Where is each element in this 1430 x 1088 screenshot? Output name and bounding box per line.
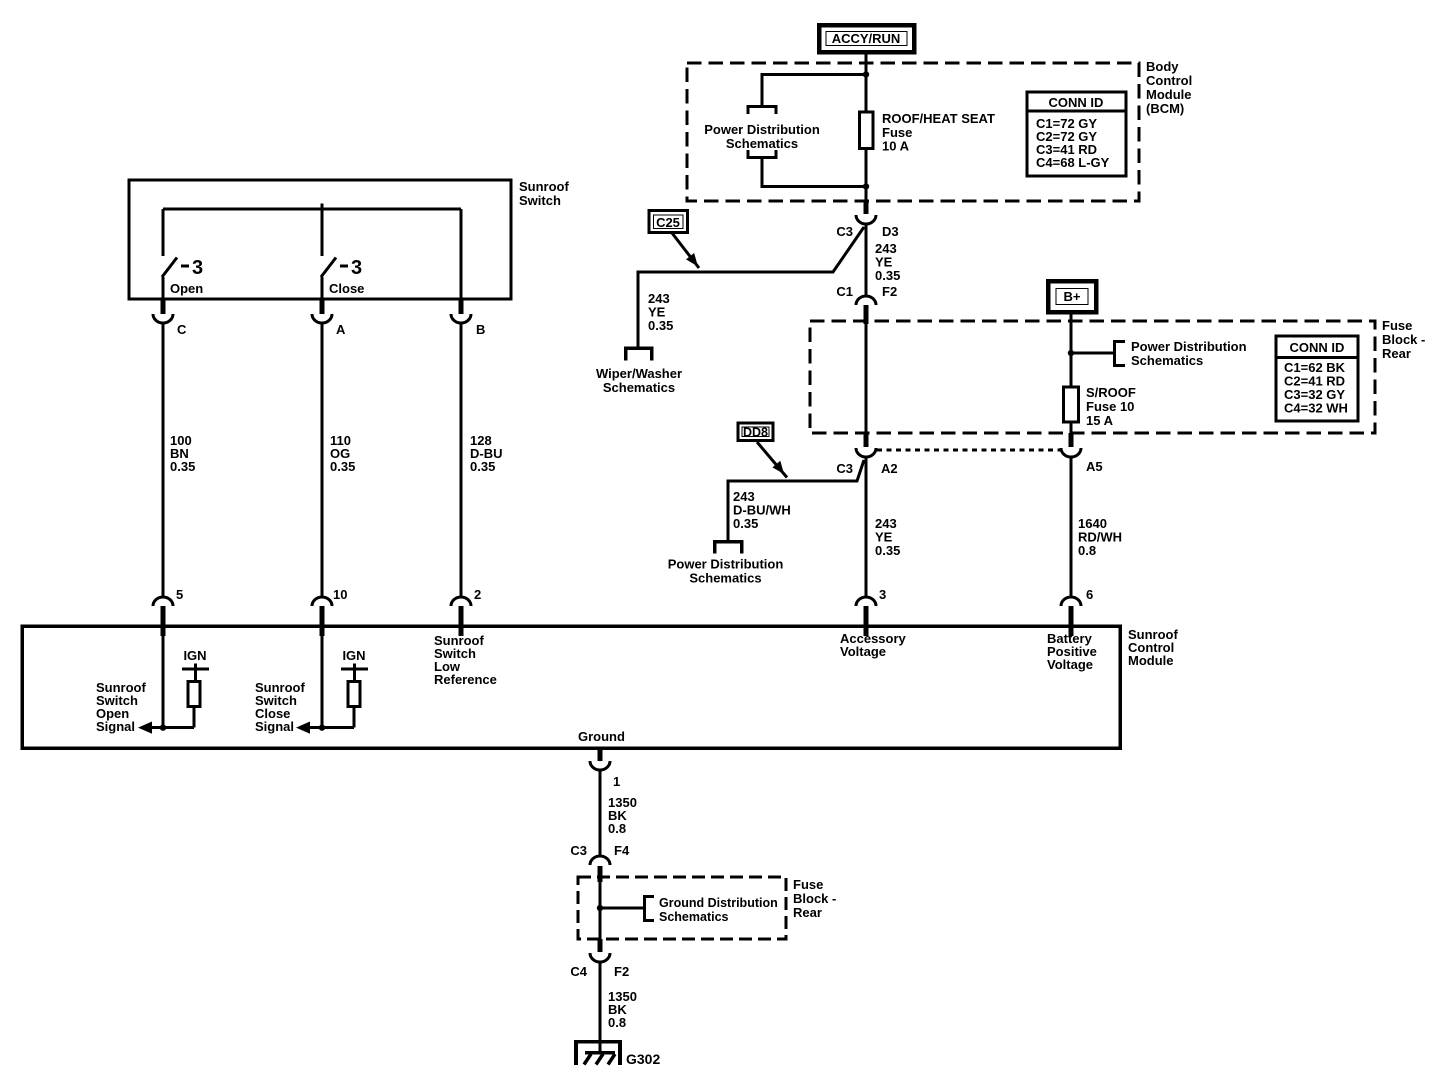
wire through ground dist box — [599, 882, 602, 939]
wire branch to power distribution schematics (DD8) — [728, 460, 864, 541]
fuse S/ROOF 15A — [1064, 385, 1136, 428]
svg-text:Fuse 10: Fuse 10 — [1086, 399, 1134, 414]
pin 5 interior wire — [162, 636, 165, 728]
wire resistor to signal line — [193, 707, 196, 728]
connector C1 F2 — [836, 284, 897, 305]
connector C4 F2 — [570, 953, 629, 979]
svg-text:Control: Control — [1146, 73, 1192, 88]
connector pin 1 — [590, 761, 620, 789]
svg-text:C25: C25 — [656, 215, 680, 230]
CONN ID table (fuse block rear) — [1276, 336, 1358, 421]
svg-text:15 A: 15 A — [1086, 413, 1114, 428]
svg-text:Rear: Rear — [793, 905, 822, 920]
svg-text:C4=32 WH: C4=32 WH — [1284, 401, 1348, 416]
connector stub below fuse block (left) — [864, 433, 869, 447]
svg-text:0.35: 0.35 — [170, 459, 195, 474]
resistor (close signal pull-up) — [348, 682, 360, 707]
connector stub into ground dist fuse block — [598, 866, 603, 882]
reference flag C25 — [649, 211, 688, 233]
reference text Power Distribution Schematics (BCM) — [704, 122, 820, 151]
ground symbol G302 — [574, 1040, 660, 1067]
label Sunroof Switch Open Signal — [96, 680, 146, 734]
connector A5 — [1061, 448, 1103, 474]
Sunroof Switch box — [129, 180, 511, 299]
svg-text:Voltage: Voltage — [1047, 657, 1093, 672]
svg-text:Fuse: Fuse — [1382, 318, 1412, 333]
wire A to pin 10 — [321, 323, 324, 597]
svg-text:C4: C4 — [570, 964, 587, 979]
label Accessory Voltage — [840, 631, 907, 659]
svg-text:2: 2 — [474, 587, 481, 602]
connector stub below ground dist box — [598, 939, 603, 952]
ground wire to C3/F4 — [599, 770, 602, 856]
switch Close — [321, 209, 364, 299]
connector stub A — [320, 299, 325, 314]
svg-text:6: 6 — [1086, 587, 1093, 602]
wire label 110 OG 0.35 — [330, 433, 355, 474]
wire resistor to signal line — [353, 707, 356, 728]
svg-text:C3: C3 — [570, 843, 587, 858]
svg-text:Block -: Block - — [1382, 332, 1425, 347]
wire B+ to fuse — [1070, 312, 1073, 433]
wire label 243 YE 0.35 (lower) — [875, 516, 900, 558]
label Fuse Block Rear — [1382, 318, 1425, 361]
Fuse Block Rear (ground) dashed box — [578, 877, 786, 939]
switch Open — [162, 209, 203, 299]
connector stub B — [459, 299, 464, 314]
BCM dashed box — [687, 63, 1139, 201]
connector pin 3 — [856, 587, 886, 606]
connector pin 6 — [1061, 587, 1093, 606]
pin 10 interior wire — [321, 636, 324, 728]
svg-text:A5: A5 — [1086, 459, 1103, 474]
fuse ROOF/HEAT SEAT 10A — [860, 111, 995, 154]
wire ACCY/RUN to BCM fuse — [865, 52, 868, 201]
Fuse Block Rear dashed box — [810, 321, 1375, 433]
svg-text:B+: B+ — [1064, 289, 1081, 304]
node junction ground dist — [597, 905, 603, 911]
svg-text:IGN: IGN — [183, 648, 206, 663]
svg-text:Power Distribution: Power Distribution — [704, 122, 820, 137]
svg-text:Rear: Rear — [1382, 346, 1411, 361]
off-page bracket (Power Distribution, fuse block) — [1115, 342, 1126, 366]
svg-text:Power Distribution: Power Distribution — [1131, 339, 1247, 354]
off-page bracket top (Power Distribution, BCM) — [748, 107, 776, 115]
label Fuse Block Rear (ground) — [793, 877, 836, 920]
junction tick middle branch — [321, 204, 324, 216]
svg-text:Reference: Reference — [434, 672, 497, 687]
reference text Power Distribution Schematics (fuse block) — [1131, 339, 1247, 368]
wire A5 to pin 6 — [1070, 457, 1073, 597]
wire C3/A2 to pin 3 — [865, 457, 868, 597]
connector pin 5 — [153, 587, 183, 606]
node junction above fuse — [863, 71, 869, 77]
reference text Wiper/Washer Schematics — [596, 366, 682, 395]
label Battery Positive Voltage — [1047, 631, 1097, 672]
svg-text:10 A: 10 A — [882, 139, 910, 154]
svg-text:Body: Body — [1146, 59, 1179, 74]
svg-text:Schematics: Schematics — [603, 380, 675, 395]
svg-text:Module: Module — [1146, 87, 1192, 102]
resistor (open signal pull-up) — [188, 682, 200, 707]
close signal line with arrow — [296, 722, 354, 734]
svg-text:C: C — [177, 322, 187, 337]
svg-text:A2: A2 — [881, 461, 898, 476]
connector B — [451, 314, 485, 337]
off-page bracket (Ground Distribution) — [645, 897, 655, 921]
svg-text:ROOF/HEAT SEAT: ROOF/HEAT SEAT — [882, 111, 995, 126]
svg-text:C3: C3 — [836, 224, 853, 239]
node junction on B+ wire — [1068, 350, 1074, 356]
svg-text:10: 10 — [333, 587, 347, 602]
svg-text:DD8: DD8 — [743, 426, 768, 440]
svg-text:CONN ID: CONN ID — [1290, 340, 1345, 355]
reference text Power Distribution Schematics (DD8 branch) — [668, 557, 784, 586]
wire label 243 YE 0.35 (branch) — [648, 291, 673, 333]
svg-text:0.8: 0.8 — [608, 1015, 626, 1030]
svg-text:Schematics: Schematics — [689, 571, 761, 586]
connector A — [312, 314, 346, 337]
open signal line with arrow — [138, 722, 194, 734]
svg-text:Sunroof: Sunroof — [519, 179, 569, 194]
svg-text:Signal: Signal — [255, 719, 294, 734]
svg-text:F2: F2 — [882, 284, 897, 299]
IGN supply 1 — [182, 648, 209, 682]
svg-text:C4=68 L-GY: C4=68 L-GY — [1036, 155, 1110, 170]
svg-text:3: 3 — [351, 257, 362, 279]
svg-text:Module: Module — [1128, 653, 1174, 668]
svg-text:1: 1 — [613, 774, 620, 789]
svg-text:Schematics: Schematics — [1131, 353, 1203, 368]
svg-text:(BCM): (BCM) — [1146, 101, 1184, 116]
power symbol ACCY/RUN — [819, 25, 914, 52]
svg-text:Block -: Block - — [793, 891, 836, 906]
label Sunroof Switch Close Signal — [255, 680, 305, 734]
wire low reference inside switch — [460, 209, 463, 299]
svg-text:Fuse: Fuse — [793, 877, 823, 892]
node junction below fuse — [863, 183, 869, 189]
svg-text:D3: D3 — [882, 224, 899, 239]
svg-text:Schematics: Schematics — [659, 910, 729, 924]
svg-text:F4: F4 — [614, 843, 630, 858]
connector C — [153, 314, 187, 337]
wire label 1350 BK 0.8 (lower) — [608, 989, 637, 1030]
power symbol B+ — [1048, 281, 1096, 312]
switch common rail — [163, 208, 461, 211]
svg-text:0.35: 0.35 — [875, 268, 900, 283]
svg-text:A: A — [336, 322, 346, 337]
connector stub below fuse block (right) — [1069, 433, 1074, 447]
wire C to pin 5 — [162, 323, 165, 597]
svg-text:ACCY/RUN: ACCY/RUN — [832, 31, 901, 46]
wire branch to power distribution reference — [762, 75, 866, 107]
svg-text:Ground Distribution: Ground Distribution — [659, 896, 778, 910]
svg-text:IGN: IGN — [342, 648, 365, 663]
svg-text:0.35: 0.35 — [648, 318, 673, 333]
connector C3 A2 — [836, 448, 897, 476]
arrow from DD8 to wire — [757, 442, 787, 478]
reference text Ground Distribution Schematics — [659, 896, 778, 924]
ground wire to G302 — [599, 962, 602, 1053]
connector pin 10 — [312, 587, 347, 606]
ground stub below module — [598, 748, 603, 761]
wire C3/D3 to C1/F2 — [865, 224, 868, 296]
svg-text:Signal: Signal — [96, 719, 135, 734]
off-page bracket bottom (Power Distribution, BCM) — [748, 150, 776, 158]
svg-text:C1: C1 — [836, 284, 853, 299]
svg-text:Switch: Switch — [519, 193, 561, 208]
svg-text:C3: C3 — [836, 461, 853, 476]
wire label 243 YE 0.35 (upper) — [875, 241, 900, 283]
svg-text:Close: Close — [329, 281, 364, 296]
svg-text:CONN ID: CONN ID — [1049, 95, 1104, 110]
svg-text:0.35: 0.35 — [733, 516, 758, 531]
svg-text:0.8: 0.8 — [1078, 543, 1096, 558]
dotted connector tie line — [877, 449, 1060, 452]
svg-text:3: 3 — [879, 587, 886, 602]
wire branch to power distribution reference — [1071, 352, 1114, 355]
label Sunroof Switch — [519, 179, 569, 208]
wire label 1640 RD/WH 0.8 — [1078, 516, 1122, 558]
svg-text:Power Distribution: Power Distribution — [668, 557, 784, 572]
arrow from C25 to wire — [672, 233, 699, 268]
wire through fuse block (left) — [865, 324, 868, 433]
off-page bracket (Power Distribution, DD8 branch) — [715, 542, 742, 554]
svg-text:F2: F2 — [614, 964, 629, 979]
svg-text:0.35: 0.35 — [875, 543, 900, 558]
wire branch to ground distribution reference — [600, 907, 644, 910]
svg-text:Open: Open — [170, 281, 203, 296]
svg-text:Voltage: Voltage — [840, 644, 886, 659]
wire label 1350 BK 0.8 (upper) — [608, 795, 637, 836]
connector stub into fuse block — [864, 305, 869, 324]
svg-text:S/ROOF: S/ROOF — [1086, 385, 1136, 400]
svg-text:Wiper/Washer: Wiper/Washer — [596, 366, 682, 381]
svg-text:3: 3 — [192, 257, 203, 279]
svg-text:Ground: Ground — [578, 729, 625, 744]
connector stub below BCM — [864, 201, 869, 214]
wire label 128 D-BU 0.35 — [470, 433, 503, 474]
reference flag DD8 — [738, 423, 773, 441]
off-page bracket (Wiper/Washer) — [626, 348, 652, 361]
wire branch to wiper/washer schematics — [638, 227, 864, 347]
wire label 100 BN 0.35 — [170, 433, 195, 474]
wire return branch to node below fuse — [762, 158, 866, 187]
wire label 243 D-BU/WH 0.35 — [733, 489, 791, 531]
connector C3 F4 — [570, 843, 630, 865]
svg-text:G302: G302 — [626, 1051, 660, 1067]
svg-text:0.35: 0.35 — [470, 459, 495, 474]
connector stub C — [161, 299, 166, 314]
label Body Control Module (BCM) — [1146, 59, 1192, 116]
CONN ID table (BCM) — [1027, 92, 1126, 176]
svg-text:0.8: 0.8 — [608, 821, 626, 836]
Sunroof Control Module box — [22, 626, 1120, 748]
IGN supply 2 — [341, 648, 368, 682]
label Sunroof Control Module — [1128, 627, 1178, 668]
connector pin 2 — [451, 587, 481, 606]
svg-text:B: B — [476, 322, 485, 337]
connector C3 D3 — [836, 215, 898, 239]
svg-text:Schematics: Schematics — [726, 136, 798, 151]
svg-text:5: 5 — [176, 587, 183, 602]
wire B to pin 2 — [460, 323, 463, 597]
svg-text:0.35: 0.35 — [330, 459, 355, 474]
label Sunroof Switch Low Reference — [434, 633, 497, 687]
